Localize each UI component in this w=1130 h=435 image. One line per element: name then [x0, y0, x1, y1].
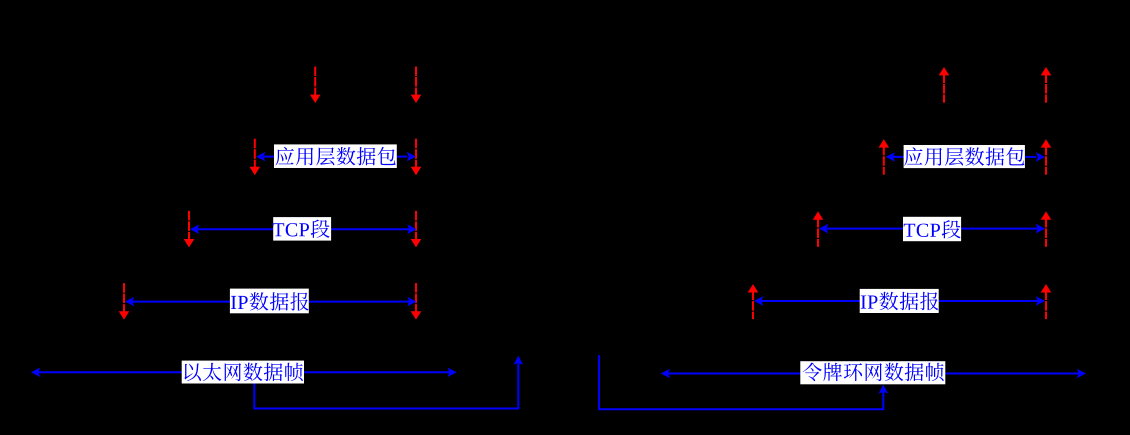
- wire: connector from physical link, down-right-up into Token-Ring-frame label: [599, 355, 888, 409]
- red dashed up arrow, IP row, left: [748, 284, 759, 319]
- label box: TCP段 (right): [903, 217, 961, 241]
- red dashed up arrow, app-layer row, right: [1041, 139, 1052, 175]
- red dashed up arrow, TCP row, right: [1041, 211, 1052, 247]
- red dashed up arrow, app-layer row, left: [879, 139, 890, 175]
- red dashed down arrow, app-layer row, right: [411, 139, 422, 176]
- blue double arrow: TCP segment extent (left): [190, 224, 417, 234]
- red dashed down arrow, top row, x=416: [411, 67, 422, 104]
- blue span arrow (left stub) of right app-layer label: [886, 152, 904, 162]
- label box: 应用层数据包 (left): [274, 144, 397, 168]
- blue double arrow: IP datagram extent (left): [125, 297, 417, 307]
- red dashed down arrow, app-layer row, left: [250, 139, 261, 176]
- label box: 令牌环网数据帧: [800, 361, 945, 384]
- red dashed down arrow, IP row, right: [411, 283, 422, 320]
- blue double arrow: Ethernet frame extent: [31, 368, 457, 378]
- label text: 应用层数据包 (left): [276, 147, 396, 166]
- red dashed down arrow, TCP row, right: [411, 211, 422, 248]
- label text: 令牌环网数据帧: [803, 363, 944, 382]
- label text: 应用层数据包 (right): [904, 147, 1024, 166]
- wire: connector from Ethernet-frame label, down-right-up to physical link: [254, 356, 523, 409]
- label text: TCP段 (right): [904, 220, 961, 238]
- red dashed down arrow, top row, x=315 (data into app layer): [310, 67, 321, 104]
- blue double arrow: TCP segment extent (right): [819, 224, 1045, 234]
- red dashed up arrow, TCP row, left: [813, 211, 824, 247]
- label box: IP数据报 (right): [860, 289, 939, 313]
- label text: TCP段 (left): [273, 220, 330, 238]
- blue span arrow (right stub) of right app-layer label: [1025, 152, 1045, 162]
- red dashed down arrow, TCP row, left: [184, 211, 195, 248]
- label text: IP数据报 (left): [231, 292, 309, 310]
- red dashed up arrow, top row, x=944 (data out of app layer): [939, 67, 950, 103]
- label box: 应用层数据包 (right): [904, 145, 1025, 168]
- label box: TCP段 (left): [273, 217, 331, 241]
- label text: IP数据报 (right): [861, 292, 939, 310]
- blue double arrow: Token-Ring frame extent: [661, 369, 1086, 379]
- blue span arrow (left stub) of left app-layer label: [256, 152, 274, 162]
- label box: 以太网数据帧: [182, 361, 304, 384]
- red dashed down arrow, IP row, left: [119, 283, 130, 320]
- label box: IP数据报 (left): [230, 289, 309, 314]
- red dashed up arrow, IP row, right: [1041, 284, 1052, 319]
- blue double arrow: IP datagram extent (right): [754, 296, 1045, 306]
- red dashed up arrow, top row, x=1046: [1041, 67, 1052, 103]
- blue span arrow (right stub) of left app-layer label: [397, 152, 417, 162]
- label text: 以太网数据帧: [184, 363, 302, 381]
